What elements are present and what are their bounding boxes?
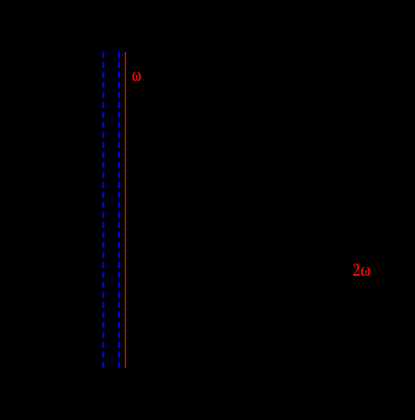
wire: blue dashed vertical line left (102, 52, 104, 368)
svg-text:ω: ω (132, 65, 142, 86)
wire: red solid vertical line (124, 52, 126, 368)
wire: blue dashed vertical line right (118, 52, 120, 368)
svg-text:2ω: 2ω (353, 260, 371, 281)
